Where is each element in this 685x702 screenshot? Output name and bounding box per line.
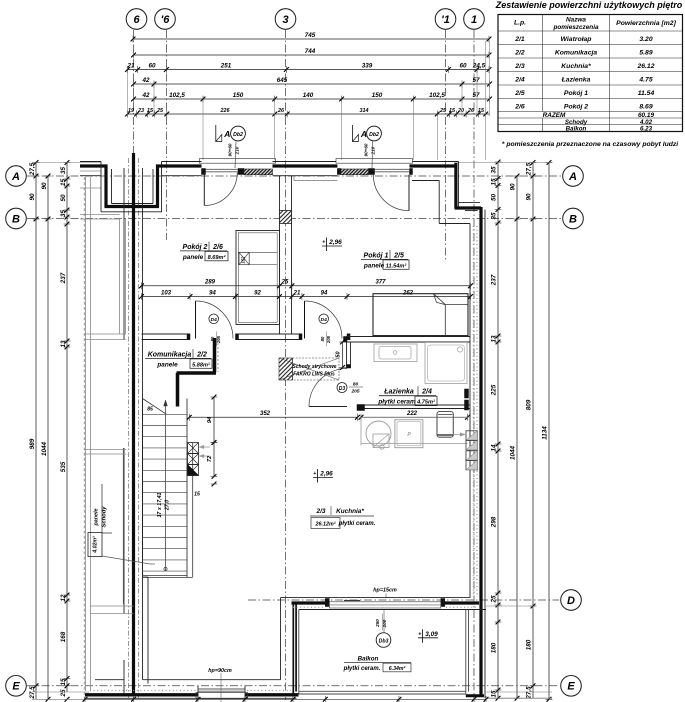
svg-text:2/3: 2/3	[316, 508, 326, 515]
svg-text:1044: 1044	[510, 446, 517, 461]
svg-text:hp=15cm: hp=15cm	[373, 588, 397, 594]
svg-text:72: 72	[207, 455, 213, 462]
svg-text:Komunikacja: Komunikacja	[148, 351, 192, 358]
svg-text:180: 180	[526, 639, 533, 650]
svg-text:35: 35	[491, 212, 498, 220]
svg-text:15: 15	[60, 678, 67, 686]
svg-text:E: E	[12, 681, 20, 693]
svg-text:152: 152	[241, 256, 246, 264]
svg-text:94: 94	[209, 290, 216, 296]
svg-text:D3: D3	[339, 386, 346, 392]
svg-text:6: 6	[133, 14, 140, 26]
svg-text:57: 57	[472, 77, 480, 84]
svg-text:90+60: 90+60	[364, 143, 369, 156]
svg-text:+: +	[313, 471, 316, 477]
svg-text:A: A	[568, 171, 577, 183]
svg-text:2,96: 2,96	[328, 239, 342, 246]
svg-text:20: 20	[457, 108, 464, 114]
svg-text:25: 25	[60, 689, 67, 698]
svg-text:90+60: 90+60	[228, 143, 233, 156]
svg-text:* pomieszczenia przeznaczone n: * pomieszczenia przeznaczone na czasowy …	[502, 141, 678, 148]
svg-text:Pokój 1: Pokój 1	[364, 252, 389, 259]
svg-text:Balkon: Balkon	[358, 656, 379, 663]
svg-text:Schody strychowe: Schody strychowe	[292, 364, 336, 370]
svg-text:11.54: 11.54	[638, 90, 655, 97]
svg-text:Db2: Db2	[369, 132, 379, 138]
svg-text:90: 90	[526, 193, 533, 201]
svg-text:Zestawienie powierzchni użytko: Zestawienie powierzchni użytkowych piętr…	[495, 0, 683, 10]
svg-text:180: 180	[491, 642, 498, 653]
svg-text:15: 15	[491, 178, 498, 186]
svg-text:352: 352	[260, 411, 271, 417]
svg-text:hp=90cm: hp=90cm	[208, 668, 232, 674]
svg-text:2/4: 2/4	[514, 76, 525, 83]
svg-text:2/5: 2/5	[393, 252, 404, 259]
svg-text:A: A	[360, 129, 367, 139]
svg-text:2/3: 2/3	[514, 63, 525, 70]
svg-text:35: 35	[491, 166, 498, 174]
svg-text:205: 205	[350, 389, 359, 395]
svg-text:15: 15	[449, 108, 456, 114]
svg-text:50: 50	[336, 352, 342, 358]
svg-text:1134: 1134	[542, 426, 549, 440]
svg-text:Pokój 2: Pokój 2	[564, 103, 588, 110]
svg-text:262: 262	[402, 290, 414, 296]
svg-text:50: 50	[491, 194, 498, 202]
svg-text:25: 25	[439, 108, 447, 114]
svg-text:314: 314	[360, 108, 369, 114]
svg-text:Kuchnia*: Kuchnia*	[336, 508, 364, 515]
svg-text:4.75: 4.75	[638, 76, 652, 83]
svg-text:1044: 1044	[41, 442, 48, 457]
svg-text:panele: panele	[182, 254, 204, 261]
svg-text:102,5: 102,5	[429, 92, 445, 99]
svg-text:19: 19	[128, 108, 134, 114]
svg-text:+: +	[322, 240, 325, 246]
svg-text:panele: panele	[363, 262, 385, 269]
svg-text:809: 809	[526, 399, 533, 410]
svg-text:13: 13	[60, 340, 67, 348]
svg-text:21: 21	[293, 290, 301, 296]
svg-text:Db2: Db2	[233, 132, 243, 138]
svg-text:D4: D4	[211, 317, 217, 323]
svg-text:222: 222	[406, 411, 418, 417]
svg-text:535: 535	[60, 461, 67, 472]
svg-text:27,5: 27,5	[29, 162, 36, 176]
svg-text:745: 745	[305, 32, 316, 39]
svg-text:płytki ceram.: płytki ceram.	[343, 666, 381, 672]
svg-text:2,96: 2,96	[319, 471, 333, 478]
svg-text:15: 15	[478, 108, 485, 114]
svg-text:92: 92	[254, 290, 261, 296]
svg-text:85: 85	[147, 407, 153, 413]
svg-text:A: A	[11, 171, 20, 183]
svg-text:15: 15	[60, 179, 67, 187]
svg-text:168: 168	[60, 631, 67, 642]
svg-text:płytki ceram: płytki ceram	[377, 399, 416, 406]
svg-text:2/5: 2/5	[514, 90, 525, 97]
svg-text:E: E	[567, 681, 575, 693]
svg-text:6.34m²: 6.34m²	[389, 666, 406, 672]
svg-text:2/6: 2/6	[514, 103, 525, 110]
svg-text:panele: panele	[94, 508, 100, 526]
svg-text:23: 23	[137, 108, 144, 114]
svg-text:Łazienka: Łazienka	[383, 389, 414, 396]
svg-text:237: 237	[491, 274, 498, 286]
svg-text:2/4: 2/4	[421, 389, 432, 396]
svg-text:12: 12	[60, 594, 67, 602]
svg-text:2/6: 2/6	[212, 244, 223, 251]
svg-text:237: 237	[60, 272, 67, 284]
svg-text:25: 25	[491, 595, 498, 604]
svg-text:Kuchnia*: Kuchnia*	[561, 63, 591, 70]
svg-text:21: 21	[126, 62, 135, 69]
svg-text:42: 42	[141, 77, 150, 84]
svg-text:60: 60	[148, 62, 156, 69]
svg-text:42: 42	[141, 92, 150, 99]
svg-text:Komunikacja: Komunikacja	[555, 49, 598, 56]
svg-text:225: 225	[491, 384, 498, 396]
svg-text:90: 90	[29, 193, 36, 201]
svg-text:989: 989	[29, 438, 36, 449]
svg-text:Db3: Db3	[379, 638, 389, 644]
svg-text:2/2: 2/2	[514, 49, 525, 56]
svg-text:80: 80	[353, 382, 359, 388]
svg-text:210: 210	[371, 146, 376, 155]
svg-text:26: 26	[467, 108, 475, 114]
svg-text:panele: panele	[156, 361, 178, 368]
svg-text:35: 35	[60, 167, 67, 175]
svg-text:RAZEM: RAZEM	[543, 112, 566, 119]
svg-text:B: B	[569, 213, 577, 225]
svg-text:13: 13	[491, 335, 498, 343]
svg-text:4.02m²: 4.02m²	[93, 536, 99, 554]
svg-text:15: 15	[194, 492, 200, 498]
svg-text:27,5: 27,5	[29, 686, 36, 700]
svg-text:744: 744	[305, 48, 316, 55]
svg-text:Wiatrołap: Wiatrołap	[561, 36, 592, 43]
svg-text:27,5: 27,5	[526, 162, 533, 176]
svg-text:150: 150	[233, 92, 244, 99]
svg-text:L.p.: L.p.	[514, 20, 526, 27]
svg-text:Pokój 2: Pokój 2	[183, 244, 208, 251]
svg-text:3,09: 3,09	[425, 631, 438, 638]
svg-text:226: 226	[220, 108, 231, 114]
svg-text:11.54m²: 11.54m²	[386, 262, 407, 269]
svg-text:339: 339	[362, 62, 373, 69]
svg-text:Schody: Schody	[102, 506, 108, 528]
svg-text:60: 60	[459, 62, 467, 69]
svg-text:5.89: 5.89	[639, 49, 652, 56]
svg-text:14: 14	[491, 444, 498, 452]
svg-text:B: B	[12, 213, 20, 225]
svg-text:289: 289	[204, 280, 216, 286]
svg-text:FAKRO LWS Plus: FAKRO LWS Plus	[293, 372, 335, 378]
svg-text:+: +	[418, 631, 421, 637]
svg-text:4.75m²: 4.75m²	[416, 399, 435, 406]
svg-text:1: 1	[471, 14, 477, 26]
svg-text:25: 25	[281, 280, 289, 286]
svg-text:'6: '6	[161, 14, 171, 26]
svg-text:35: 35	[60, 210, 67, 218]
svg-text:250: 250	[375, 619, 380, 628]
svg-text:27,0: 27,0	[165, 500, 171, 511]
svg-text:26.12: 26.12	[636, 63, 654, 70]
svg-text:Powierzchnia [m2]: Powierzchnia [m2]	[616, 20, 676, 27]
svg-text:2/2: 2/2	[196, 351, 207, 358]
svg-text:150: 150	[372, 92, 383, 99]
svg-text:90: 90	[510, 183, 517, 191]
svg-text:17 x 17,41: 17 x 17,41	[157, 492, 163, 517]
svg-text:377: 377	[375, 280, 386, 286]
svg-text:15: 15	[147, 108, 154, 114]
svg-text:80: 80	[320, 336, 325, 341]
svg-text:57: 57	[472, 92, 480, 99]
svg-text:'1: '1	[441, 14, 450, 26]
svg-text:Pokój 1: Pokój 1	[564, 90, 588, 97]
svg-text:płytki ceram.: płytki ceram.	[338, 521, 376, 527]
svg-text:26.12m²: 26.12m²	[314, 522, 335, 528]
svg-text:Balkon: Balkon	[566, 126, 587, 133]
svg-text:24,5: 24,5	[472, 62, 486, 69]
svg-text:3: 3	[282, 14, 288, 26]
svg-text:251: 251	[220, 62, 232, 69]
svg-text:102,5: 102,5	[169, 92, 185, 99]
svg-text:140: 140	[303, 92, 314, 99]
svg-text:D: D	[567, 595, 575, 607]
svg-text:2/1: 2/1	[514, 36, 525, 43]
svg-text:6.23: 6.23	[640, 126, 653, 133]
svg-text:25: 25	[156, 108, 164, 114]
svg-text:15: 15	[491, 690, 498, 698]
svg-text:8.69: 8.69	[639, 103, 652, 110]
svg-text:26: 26	[277, 108, 285, 114]
svg-text:D4: D4	[321, 317, 327, 323]
svg-text:5.88m²: 5.88m²	[192, 361, 210, 368]
svg-text:8.69m²: 8.69m²	[208, 254, 226, 261]
svg-text:pomieszczenia: pomieszczenia	[552, 24, 599, 31]
svg-text:103: 103	[161, 290, 172, 296]
svg-text:90: 90	[41, 182, 48, 190]
svg-text:3.20: 3.20	[639, 36, 652, 43]
svg-text:298: 298	[491, 516, 498, 528]
svg-text:Nazwa: Nazwa	[566, 17, 586, 24]
svg-text:200: 200	[382, 619, 387, 628]
svg-text:A: A	[223, 129, 230, 139]
svg-text:50: 50	[60, 194, 67, 202]
svg-text:94: 94	[321, 290, 328, 296]
svg-text:27,5: 27,5	[526, 686, 533, 700]
svg-text:Łazienka: Łazienka	[561, 76, 591, 83]
svg-text:645: 645	[277, 77, 288, 84]
